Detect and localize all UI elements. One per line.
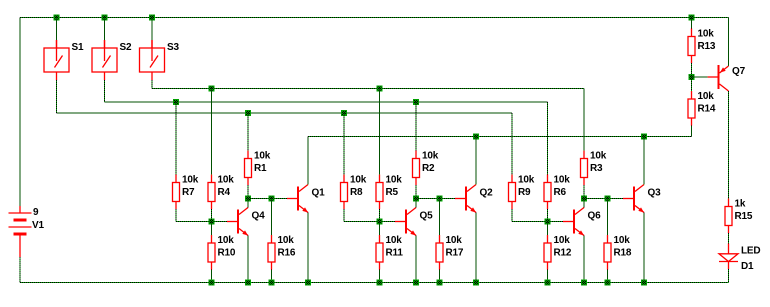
svg-text:10k: 10k	[590, 151, 607, 162]
svg-text:R8: R8	[350, 187, 363, 198]
wire Q2 emitter to ground	[475, 213, 477, 283]
switch S1	[44, 40, 69, 80]
wire R11 to ground rail	[379, 270, 381, 283]
wire bus to R16	[271, 199, 273, 236]
resistor R12	[544, 235, 551, 270]
svg-text:10k: 10k	[182, 175, 199, 186]
svg-text:10k: 10k	[614, 235, 631, 246]
wire row to R4	[211, 89, 213, 175]
wire net S1 (row y=113)	[57, 112, 513, 114]
wire 113.0 row to R8	[343, 113, 345, 175]
node R17 ground	[437, 280, 443, 286]
svg-text:R7: R7	[182, 187, 195, 198]
svg-text:R1: R1	[254, 163, 267, 174]
wire base bus to R10	[211, 222, 213, 236]
node R3-Q6 collector	[581, 196, 587, 202]
svg-text:R13: R13	[698, 41, 716, 52]
resistor R6	[544, 175, 551, 210]
svg-text:D1: D1	[741, 261, 754, 272]
node S3-R4	[209, 86, 215, 92]
node S1 top rail junction	[54, 15, 60, 21]
wire R8 to base bus	[343, 209, 345, 222]
resistor R18	[604, 235, 611, 270]
transistor Q6	[563, 208, 584, 236]
wire Q1 emitter to ground	[307, 213, 309, 283]
node R18 top	[605, 196, 611, 202]
wire collector bus to Q2 base	[416, 198, 455, 200]
node R18 ground	[605, 280, 611, 286]
resistor R13	[688, 29, 695, 64]
wire S1 down	[56, 80, 58, 113]
svg-text:LED: LED	[741, 246, 760, 257]
svg-text:S2: S2	[120, 42, 132, 53]
node Q1 emitter ground	[305, 280, 311, 286]
transistor Q5	[395, 208, 416, 236]
svg-text:R16: R16	[278, 248, 296, 259]
wire base bus of Q4	[176, 221, 227, 223]
wire base bus of Q6	[512, 221, 563, 223]
wire bottom ground rail	[20, 282, 729, 284]
node Q6 emitter ground	[581, 280, 587, 286]
node Q3 collector on bus	[641, 134, 647, 140]
wire row to R6	[547, 102, 549, 175]
wire LED to bottom rail	[728, 269, 730, 283]
wire row to R2	[415, 102, 417, 151]
wire R15 to LED	[728, 233, 730, 244]
resistor R8	[341, 175, 348, 210]
wire top rail to S2	[104, 18, 106, 41]
wire R1 to collector bus	[247, 185, 249, 199]
node R1-Q4 collector	[245, 196, 251, 202]
wire R6 to base bus	[547, 209, 549, 222]
svg-text:R4: R4	[218, 187, 231, 198]
svg-text:Q7: Q7	[732, 66, 746, 77]
node R12 ground	[545, 280, 551, 286]
node base bus Q4	[209, 219, 215, 225]
svg-text:R6: R6	[554, 187, 567, 198]
node S2-R2	[413, 99, 419, 105]
svg-text:9: 9	[33, 207, 39, 218]
resistor R16	[268, 235, 275, 270]
svg-text:Q5: Q5	[420, 211, 434, 222]
node R13 top rail junction	[689, 15, 695, 21]
svg-text:Q3: Q3	[648, 188, 662, 199]
svg-text:R10: R10	[218, 248, 236, 259]
wire collector output bus (row y=136.5)	[308, 136, 692, 138]
wire R18 to ground rail	[607, 270, 609, 283]
wire collector bus to Q3 base	[584, 198, 623, 200]
transistor Q4	[227, 208, 248, 236]
wire R13 to Q7 base node	[691, 63, 693, 77]
wire Q5 emitter to ground	[415, 236, 417, 283]
svg-text:Q2: Q2	[480, 188, 494, 199]
node S3-R5	[377, 86, 383, 92]
node Q4 emitter ground	[245, 280, 251, 286]
svg-text:R3: R3	[590, 163, 603, 174]
svg-text:10k: 10k	[518, 175, 535, 186]
node Q7 base divider	[689, 74, 695, 80]
wire 113.0 row to R9	[511, 113, 513, 175]
wire R17 to ground rail	[439, 270, 441, 283]
wire top rail right drop to Q7 emitter	[728, 18, 730, 67]
wire Q1 collector up to output bus	[307, 137, 309, 185]
node R16 top	[269, 196, 275, 202]
resistor R17	[436, 235, 443, 270]
svg-text:10k: 10k	[350, 175, 367, 186]
svg-text:R18: R18	[614, 248, 632, 259]
resistor R10	[208, 235, 215, 270]
node Q2 emitter ground	[473, 280, 479, 286]
switch S2	[92, 40, 117, 80]
wire Q2 collector up to output bus	[475, 137, 477, 185]
resistor R11	[376, 235, 383, 270]
svg-text:Q4: Q4	[252, 211, 266, 222]
wire R4 to base bus	[211, 209, 213, 222]
wire Q6 collector up	[583, 199, 585, 208]
svg-text:10k: 10k	[218, 175, 235, 186]
svg-text:S3: S3	[167, 42, 179, 53]
wire top rail to S1	[56, 18, 58, 41]
wire battery negative lead to bottom rail	[19, 257, 21, 283]
svg-text:10k: 10k	[422, 151, 439, 162]
wire S2 down	[104, 80, 106, 102]
svg-text:R11: R11	[386, 248, 404, 259]
transistor Q2	[455, 185, 476, 213]
wire row to R3	[583, 89, 585, 151]
wire Q3 emitter to ground	[643, 213, 645, 283]
wire Q4 collector up	[247, 199, 249, 208]
node R11 ground	[377, 280, 383, 286]
svg-text:S1: S1	[72, 42, 84, 53]
wire net S3 (row y=88.5)	[152, 88, 584, 90]
svg-text:10k: 10k	[386, 235, 403, 246]
wire R12 to ground rail	[547, 270, 549, 283]
wire base bus to R12	[547, 222, 549, 236]
svg-text:10k: 10k	[698, 29, 715, 40]
node S2 top rail junction	[102, 15, 108, 21]
wire R7 to base bus	[175, 209, 177, 222]
wire bus to R17	[439, 199, 441, 236]
svg-text:R14: R14	[698, 104, 716, 115]
resistor R7	[173, 175, 180, 210]
svg-text:1k: 1k	[735, 199, 746, 210]
node R16 ground	[269, 280, 275, 286]
wire top rail to R13	[691, 18, 693, 29]
resistor R9	[509, 175, 516, 210]
node R10 ground	[209, 280, 215, 286]
svg-text:10k: 10k	[554, 235, 571, 246]
battery V1	[9, 206, 32, 257]
wire S3 down	[151, 80, 153, 89]
svg-text:R9: R9	[518, 187, 531, 198]
svg-text:10k: 10k	[386, 175, 403, 186]
wire bus to R18	[607, 199, 609, 236]
wire Q7 collector down to R15	[728, 91, 730, 199]
wire R3 to collector bus	[583, 185, 585, 199]
wire R2 to collector bus	[415, 185, 417, 199]
resistor R3	[581, 151, 588, 186]
node Q5 emitter ground	[413, 280, 419, 286]
svg-text:10k: 10k	[554, 175, 571, 186]
switch S3	[140, 40, 165, 80]
wire R9 to base bus	[511, 209, 513, 222]
wire top power rail	[20, 17, 729, 19]
node S1-R8	[341, 110, 347, 116]
wire collector bus to Q1 base	[248, 198, 287, 200]
wire base bus to R11	[379, 222, 381, 236]
transistor Q7	[708, 65, 729, 91]
svg-text:V1: V1	[32, 220, 44, 231]
wire top rail to S3	[151, 18, 153, 41]
transistor Q3	[623, 185, 644, 213]
wire row to R5	[379, 89, 381, 175]
node R17 top	[437, 196, 443, 202]
wire row to R1	[247, 113, 249, 151]
LED D1	[719, 244, 738, 270]
wire R16 to ground rail	[271, 270, 273, 283]
svg-text:10k: 10k	[446, 235, 463, 246]
svg-text:10k: 10k	[698, 91, 715, 102]
transistor Q1	[287, 185, 308, 213]
svg-text:10k: 10k	[218, 235, 235, 246]
wire net S2 (row y=102)	[105, 101, 548, 103]
wire Q7 base node to R14	[691, 77, 693, 91]
resistor R5	[376, 175, 383, 210]
svg-text:10k: 10k	[254, 151, 271, 162]
node base bus Q6	[545, 219, 551, 225]
wire base bus of Q5	[344, 221, 395, 223]
resistor R14	[688, 91, 695, 126]
wire Q4 emitter to ground	[247, 236, 249, 283]
svg-text:R5: R5	[386, 187, 399, 198]
node Q3 emitter ground	[641, 280, 647, 286]
node S1-R1	[245, 110, 251, 116]
wire battery positive lead up to top rail	[19, 18, 21, 207]
node R2-Q5 collector	[413, 196, 419, 202]
resistor R15	[725, 199, 732, 234]
wire Q3 collector up to output bus	[643, 137, 645, 185]
node S2-R7	[173, 99, 179, 105]
svg-text:R2: R2	[422, 163, 435, 174]
wire R14 to output bus	[691, 126, 693, 137]
svg-text:10k: 10k	[278, 235, 295, 246]
node Q2 collector on bus	[473, 134, 479, 140]
resistor R2	[413, 151, 420, 186]
svg-text:R15: R15	[735, 211, 753, 222]
wire R10 to ground rail	[211, 270, 213, 283]
svg-text:Q6: Q6	[588, 211, 602, 222]
wire Q6 emitter to ground	[583, 236, 585, 283]
wire 102.0 row to R7	[175, 102, 177, 175]
resistor R1	[245, 151, 252, 186]
svg-text:R12: R12	[554, 248, 572, 259]
node base bus Q5	[377, 219, 383, 225]
node S3 top rail junction	[149, 15, 155, 21]
resistor R4	[208, 175, 215, 210]
wire R5 to base bus	[379, 209, 381, 222]
svg-text:R17: R17	[446, 248, 464, 259]
wire base node to Q7	[692, 76, 708, 78]
svg-text:Q1: Q1	[312, 188, 326, 199]
wire Q5 collector up	[415, 199, 417, 208]
